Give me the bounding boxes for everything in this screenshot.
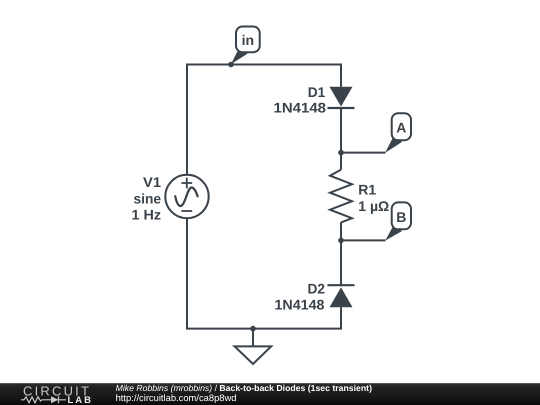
node junction dot (B) [338, 238, 344, 244]
svg-text:1 Hz: 1 Hz [132, 207, 162, 223]
wire: bottom rail [187, 218, 341, 328]
svg-text:R1: R1 [358, 181, 376, 197]
svg-text:B: B [396, 209, 406, 225]
ground [235, 329, 272, 364]
svg-text:V1: V1 [143, 174, 161, 190]
wire: top rail from left branch to right branch [187, 65, 341, 175]
svg-text:D2: D2 [308, 281, 326, 297]
svg-text:sine: sine [134, 190, 162, 206]
svg-text:1 µΩ: 1 µΩ [358, 198, 389, 214]
diode D2 [328, 285, 355, 307]
node junction dot (A) [338, 150, 344, 156]
node junction dot (in) [228, 62, 234, 68]
wire: stub to flag A [341, 152, 386, 154]
svg-text:D1: D1 [308, 84, 326, 100]
svg-text:1N4148: 1N4148 [274, 99, 327, 115]
voltage source V1 [165, 175, 208, 218]
diode D1 [328, 87, 355, 108]
wire: stub to flag B [341, 239, 386, 241]
svg-text:in: in [242, 32, 254, 48]
node flag in [231, 27, 260, 65]
node flag B [385, 202, 411, 240]
svg-text:http://circuitlab.com/ca8p8wd: http://circuitlab.com/ca8p8wd [116, 392, 237, 403]
svg-text:LAB: LAB [68, 395, 94, 405]
CircuitLab logo [21, 383, 93, 405]
svg-text:A: A [396, 120, 406, 136]
wire: D1 cathode to resistor top [340, 107, 342, 170]
node junction dot (gnd) [250, 326, 256, 332]
wire: resistor bottom to D2 cathode [340, 222, 342, 286]
footer bar [0, 383, 540, 405]
svg-text:1N4148: 1N4148 [275, 296, 325, 312]
resistor R1 [330, 170, 352, 223]
node flag A [385, 113, 411, 153]
